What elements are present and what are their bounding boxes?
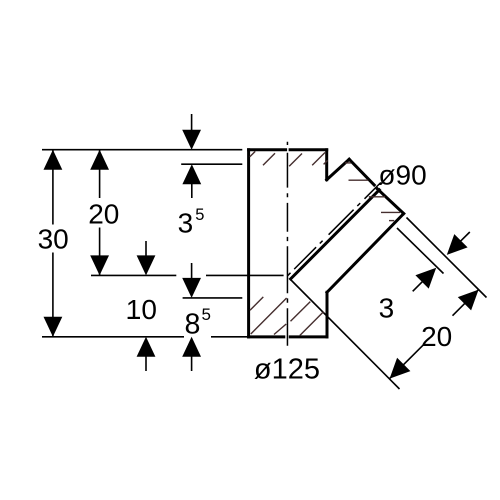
svg-text:ø125: ø125: [254, 353, 320, 385]
svg-text:20: 20: [88, 199, 119, 230]
arrow tail 10 bottom: [145, 355, 147, 371]
body left edge: [247, 150, 250, 337]
arrowhead 30 top up: [44, 150, 63, 170]
arrow tail 8.5 bottom: [191, 355, 193, 371]
dimension line 30 lower segment: [52, 253, 54, 337]
hatch tick top edge 4: [312, 153, 325, 166]
arrow tail 3.5 bottom: [191, 183, 193, 198]
extension line bottom left part: [42, 336, 184, 338]
dimension line 20 lower segment: [99, 228, 101, 276]
arrowhead 20 top up: [90, 150, 109, 170]
extension line 3.5 lower: [181, 163, 242, 165]
svg-text:8: 8: [185, 309, 201, 341]
svg-text:30: 30: [38, 224, 69, 255]
extension line bottom right part: [211, 336, 247, 338]
arrowhead 10 top down: [137, 255, 156, 275]
branch mouth edge lower piece: [377, 189, 403, 214]
extension line 8.5 upper: [183, 297, 243, 299]
body top edge left of centerline: [249, 148, 286, 151]
hatch tick branch wall 1: [345, 162, 351, 164]
notch diagonal outer branch wall: [327, 159, 350, 179]
body right edge below branch: [326, 292, 329, 337]
branch centerline 45deg dash-dot: [288, 183, 381, 276]
body bottom edge right of centerline: [290, 335, 327, 338]
arrowhead 30 bottom down: [44, 317, 63, 337]
arrowhead 8.5 bottom up: [182, 337, 201, 357]
hatch tick branch wall 2: [349, 179, 369, 181]
svg-text:20: 20: [421, 321, 452, 352]
dimension line 20 diagonal upper segment: [453, 290, 479, 316]
extension line E4 from junction point: [291, 280, 400, 389]
svg-text:5: 5: [202, 305, 211, 324]
hatch tick top edge 1: [250, 151, 255, 156]
svg-text:5: 5: [195, 206, 204, 224]
branch mouth edge upper piece: [349, 159, 374, 185]
arrow tail dim3 lower: [413, 282, 423, 292]
main centerline vertical dash-dot: [286, 142, 288, 346]
svg-text:3: 3: [178, 208, 194, 239]
arrow tail 8.5 top: [191, 263, 193, 279]
hatch body lower R1: [291, 302, 311, 322]
arrowhead 8.5 top down: [182, 278, 201, 298]
hatch body lower L2: [251, 298, 287, 334]
arrow tail 3.5 top: [191, 114, 193, 131]
arrowhead 3.5 top down: [182, 130, 201, 150]
extension line mid (junction level) left part: [91, 274, 176, 276]
branch lower outer wall: [327, 214, 404, 293]
dimension line 20 diagonal lower segment: [390, 344, 424, 378]
hatch tick top edge 5: [324, 160, 328, 164]
branch inner bore diagonal: [291, 190, 380, 279]
arrowhead dim20 SW end pointing SW: [390, 358, 411, 379]
hatch tick branch wall 4: [381, 211, 400, 213]
svg-text:3: 3: [379, 292, 395, 323]
arrow tail 10 top: [145, 241, 147, 258]
body top edge right of centerline: [290, 148, 327, 151]
serif bar of digit 1 in label 10: [128, 317, 140, 319]
arrow tail dim3 upper: [461, 232, 470, 241]
hatch body lower L1: [250, 297, 263, 310]
dimension line 30 upper segment: [52, 150, 54, 225]
extension line mid (junction level) right part into body: [206, 274, 284, 276]
hatch tick top edge 2: [263, 153, 275, 165]
body bottom edge left of centerline: [249, 335, 284, 338]
svg-text:10: 10: [126, 294, 157, 325]
hatch tick branch wall 5: [389, 220, 394, 222]
dimension line 20 upper segment: [99, 150, 101, 198]
svg-text:ø90: ø90: [378, 159, 426, 190]
hatch tick branch wall 3: [369, 196, 385, 198]
hatch body lower L3: [274, 324, 286, 335]
arrowhead dim3 upper pointing SW: [447, 234, 468, 255]
arrowhead 3.5 bottom up: [182, 164, 201, 184]
hatch tick top edge 3: [289, 154, 302, 167]
hatch body lower R2: [300, 312, 324, 336]
extension line E1 from branch mouth corner: [407, 218, 487, 298]
notch vertical edge: [325, 150, 328, 180]
extension line E2 wall offset: [397, 228, 444, 274]
extension line top (fitting top edge level): [42, 149, 242, 151]
arrowhead dim3 lower pointing NE: [415, 268, 436, 289]
arrowhead dim20 NE end pointing NE: [458, 290, 479, 311]
arrowhead 20 bottom down: [90, 255, 109, 275]
arrowhead 10 bottom up: [137, 337, 156, 357]
